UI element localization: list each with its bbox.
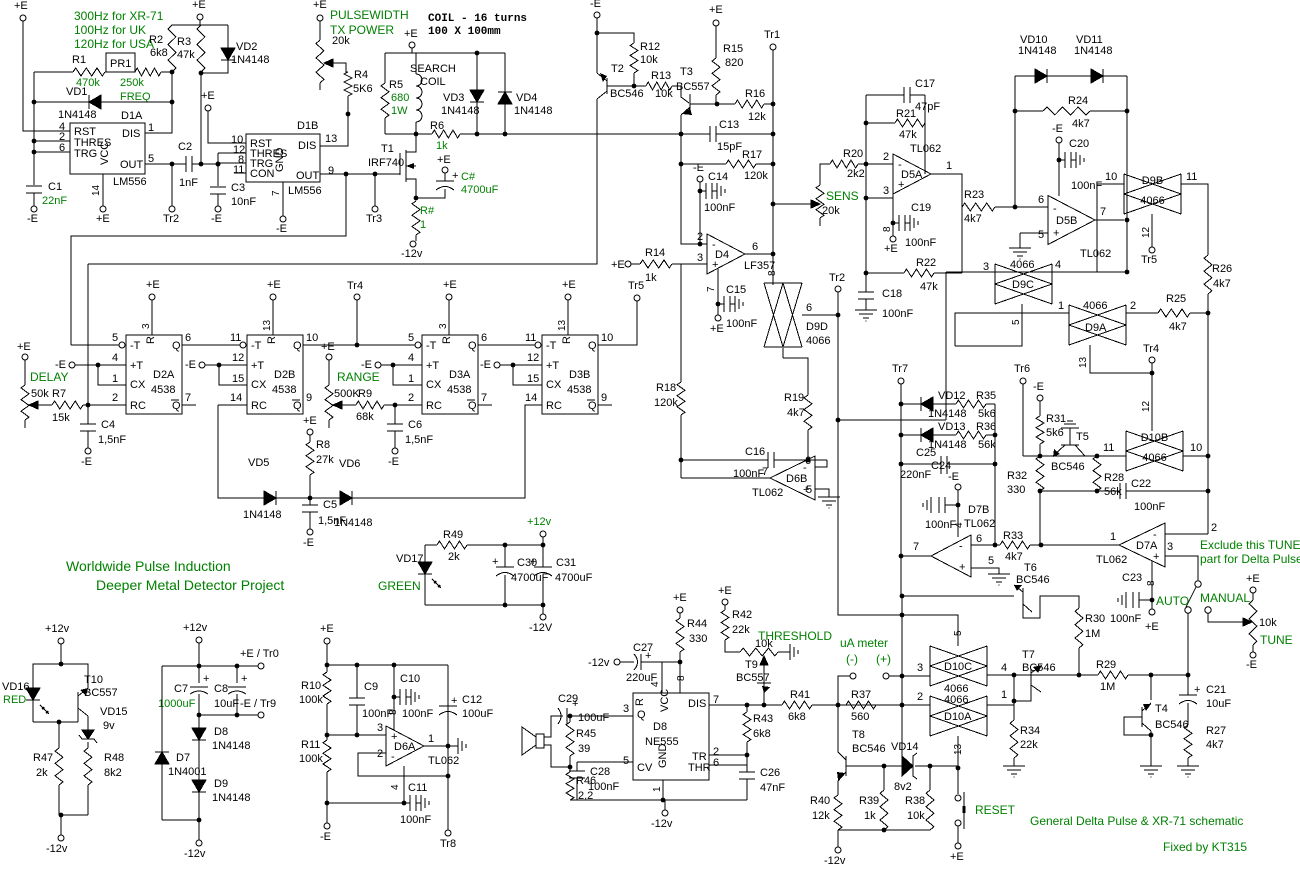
wire C22 row (1040, 490, 1120, 492)
svg-text:+T: +T (251, 360, 264, 372)
svg-text:120k: 120k (744, 170, 768, 182)
IC D1A LM556 box (70, 123, 145, 174)
svg-text:10: 10 (306, 332, 318, 344)
wire R27 gnd (1187, 758, 1189, 766)
wire y420 branch (838, 419, 946, 421)
terminal -12v T10 (58, 835, 64, 841)
capacitor C4 plates (80, 423, 96, 425)
svg-text:100nF: 100nF (882, 308, 913, 320)
svg-text:D1A: D1A (121, 110, 143, 122)
wire Tr6 down (1022, 384, 1024, 456)
svg-text:3: 3 (438, 323, 449, 329)
svg-text:+E: +E (950, 851, 964, 863)
wire VD3 bottom (476, 102, 478, 134)
junction out node (446, 744, 451, 749)
wire VD16 bottom (32, 700, 34, 722)
wire R18 bottom (680, 415, 682, 478)
ground D6B (818, 496, 840, 498)
junction C8 mid (235, 713, 240, 718)
diode VD17 symbol (418, 562, 432, 574)
svg-text:12k: 12k (812, 810, 830, 822)
svg-text:Tr3: Tr3 (366, 213, 382, 225)
svg-text:D2B: D2B (274, 369, 295, 381)
junction R47 tap (57, 720, 62, 725)
wire +E D2A (151, 300, 153, 335)
junction C10 (392, 695, 397, 700)
svg-text:1: 1 (420, 219, 426, 231)
svg-text:12k: 12k (748, 111, 766, 123)
wire C6 bottom (394, 431, 396, 448)
svg-text:-12v: -12v (824, 855, 846, 867)
wire C6 top (394, 405, 396, 424)
svg-text:1: 1 (652, 786, 663, 792)
wire R32 R33 (1039, 491, 1041, 545)
svg-text:COIL: COIL (420, 76, 446, 88)
wire Tr0 stub (237, 665, 258, 667)
svg-text:6k8: 6k8 (788, 711, 806, 723)
resistor R46 (566, 772, 574, 800)
svg-text:C24: C24 (931, 460, 951, 472)
wire C31 top lead (542, 545, 544, 567)
svg-text:330: 330 (1007, 484, 1025, 496)
svg-text:2k: 2k (448, 551, 460, 563)
svg-text:-: - (959, 541, 963, 553)
svg-text:11: 11 (233, 164, 244, 176)
svg-text:D1B: D1B (297, 120, 318, 132)
op-amp D6B TL062 (770, 456, 815, 500)
resistor R44 (676, 618, 684, 652)
wire R14 right (672, 263, 707, 265)
svg-text:7: 7 (706, 286, 717, 292)
resistor R41 (782, 701, 812, 709)
svg-text:-12v: -12v (184, 848, 206, 860)
svg-text:6: 6 (1038, 194, 1044, 206)
junction C24 (956, 503, 961, 508)
wire Tr2 bus down (838, 315, 958, 646)
wire C29 right (567, 715, 633, 717)
wire VD4 top (504, 53, 506, 92)
svg-text:1: 1 (1058, 300, 1064, 312)
svg-text:12: 12 (232, 352, 244, 364)
junction C9 pin3 (355, 733, 360, 738)
wire D10A in (838, 704, 930, 706)
wire R49 right (467, 544, 543, 546)
junction C22 R26line (1206, 489, 1211, 494)
svg-text:Q: Q (172, 400, 181, 412)
svg-text:BC557: BC557 (736, 672, 770, 684)
svg-text:5: 5 (408, 332, 414, 344)
svg-text:6: 6 (806, 302, 812, 314)
svg-text:R11: R11 (301, 739, 320, 751)
svg-text:Q: Q (588, 340, 597, 352)
wire C7 top lead (198, 666, 200, 683)
wire gnd rail 555 (577, 799, 747, 801)
resistor R30 (1075, 608, 1083, 648)
svg-text:+E: +E (267, 279, 281, 291)
svg-text:Tr7: Tr7 (892, 363, 908, 375)
wire CX loop D2A (98, 365, 126, 385)
svg-text:1: 1 (148, 122, 154, 134)
svg-text:R29: R29 (1096, 659, 1116, 671)
svg-text:2: 2 (697, 231, 703, 243)
svg-text:R22: R22 (916, 257, 936, 269)
svg-text:-T: -T (130, 340, 141, 352)
junction R24 L (1013, 109, 1018, 114)
svg-text:R1: R1 (72, 54, 86, 66)
wire VD1 left (34, 101, 89, 103)
svg-text:Deeper Metal Detector Project: Deeper Metal Detector Project (96, 577, 284, 593)
junction R31 T5 (1038, 454, 1043, 459)
svg-text:LM556: LM556 (113, 176, 147, 188)
junction VD1 node (170, 100, 175, 105)
svg-text:R5: R5 (389, 79, 403, 91)
svg-text:1,5nF: 1,5nF (98, 434, 126, 446)
svg-text:1N4148: 1N4148 (441, 105, 480, 117)
svg-text:R13: R13 (651, 70, 671, 82)
terminal -E D6A (324, 823, 330, 829)
svg-text:1: 1 (1110, 531, 1116, 543)
wire +12v down2 (198, 643, 200, 666)
resistor R36 (956, 431, 986, 439)
svg-text:TL062: TL062 (1080, 248, 1111, 260)
junction 866 123 (864, 121, 869, 126)
resistor R# (412, 201, 420, 235)
wire D7B out (901, 555, 931, 557)
svg-text:22nF: 22nF (42, 195, 67, 207)
svg-text:+T: +T (546, 360, 559, 372)
wire bus B left drop (87, 264, 89, 404)
svg-text:C16: C16 (745, 446, 765, 458)
svg-text:10k: 10k (640, 54, 658, 66)
terminal +E D3A (446, 294, 452, 300)
wire D9D bottom (782, 348, 784, 358)
terminal -E pin7 (280, 216, 286, 222)
wire T1 drain (406, 134, 416, 152)
svg-text:6: 6 (976, 533, 982, 545)
svg-text:C4: C4 (101, 419, 115, 431)
capacitor C21 plates (1179, 694, 1197, 696)
svg-text:-E: -E (81, 456, 92, 468)
terminal Tr7 (898, 378, 904, 384)
svg-text:4: 4 (112, 352, 118, 364)
wire L1 T6 (901, 595, 1014, 597)
junction +T CX D3A (391, 363, 396, 368)
svg-text:4538: 4538 (447, 384, 471, 396)
wire T8 emitter (837, 781, 839, 795)
transistor T3 BC557 (689, 94, 691, 113)
svg-text:680: 680 (391, 92, 409, 104)
junction C8 top (235, 664, 240, 669)
svg-text:+: + (959, 562, 965, 574)
svg-text:47nF: 47nF (760, 782, 785, 794)
D2A -T bubble (119, 342, 125, 348)
terminal +12v filter (540, 531, 546, 537)
wire Q stub D3B9 (598, 404, 612, 406)
wire T4 loop (1124, 717, 1151, 735)
wire R17 right (756, 163, 773, 165)
svg-text:+E: +E (320, 623, 334, 635)
svg-text:R: R (561, 336, 573, 344)
wire VD13 left (901, 434, 921, 436)
diode VD1 (89, 95, 101, 109)
svg-text:D6B: D6B (786, 473, 807, 485)
wire R11 bottom (326, 772, 328, 823)
svg-text:D9D: D9D (806, 321, 828, 333)
svg-text:VD5: VD5 (248, 457, 269, 469)
wire R10 leads (326, 665, 328, 672)
wire SENS wiper (773, 203, 811, 205)
svg-text:SENS: SENS (826, 189, 859, 203)
junction C20 (1057, 158, 1062, 163)
resistor R42 (721, 610, 729, 640)
svg-text:D8: D8 (653, 721, 667, 733)
potentiometer TUNE 10k (1249, 600, 1257, 645)
pot DELAY arrow (29, 401, 38, 409)
junction C4 RC (86, 403, 91, 408)
svg-text:Tr4: Tr4 (1143, 343, 1159, 355)
svg-text:560: 560 (851, 711, 869, 723)
wire T10 emitter (61, 664, 88, 688)
junction x902 L1 (900, 594, 905, 599)
junction C16 left (679, 458, 684, 463)
svg-text:8: 8 (388, 709, 399, 715)
svg-text:12: 12 (1141, 400, 1152, 412)
wire R47 bottom (58, 785, 60, 815)
svg-text:2: 2 (112, 392, 118, 404)
svg-text:VD2: VD2 (236, 41, 257, 53)
resistor R49 (437, 541, 467, 549)
svg-text:-12v: -12v (401, 248, 423, 260)
svg-text:Q: Q (468, 400, 477, 412)
svg-text:D3A: D3A (449, 369, 471, 381)
svg-text:+: + (1153, 551, 1159, 563)
svg-text:C11: C11 (408, 782, 427, 794)
capacitor C# (436, 180, 454, 182)
junction D10A ctl row (956, 766, 961, 771)
svg-text:100k: 100k (299, 694, 323, 706)
terminal -E C24 (955, 484, 961, 490)
svg-text:D5B: D5B (1056, 215, 1077, 227)
svg-text:4: 4 (408, 352, 414, 364)
svg-text:C29: C29 (558, 693, 578, 705)
svg-text:R16: R16 (745, 88, 765, 100)
switch AUTO/MANUAL contact A (1195, 581, 1201, 587)
svg-text:4538: 4538 (567, 384, 591, 396)
svg-text:C12: C12 (462, 694, 482, 706)
junction C14 pin2 (698, 242, 703, 247)
svg-text:+: + (492, 556, 498, 568)
svg-text:1N4148: 1N4148 (514, 105, 553, 117)
svg-text:R45: R45 (576, 728, 596, 740)
svg-text:Tr1: Tr1 (764, 29, 780, 41)
resistor R32 (1036, 456, 1044, 491)
terminal +E D6A (324, 638, 330, 644)
wire R49 left (425, 544, 437, 546)
wire -12v lead (60, 815, 62, 835)
wire R30 bottom (1078, 648, 1080, 675)
svg-text:RC: RC (251, 400, 267, 412)
junction R39 bottom (882, 828, 887, 833)
svg-text:-T: -T (426, 340, 437, 352)
svg-text:Q: Q (468, 340, 477, 352)
svg-text:10uF: 10uF (214, 698, 239, 710)
svg-text:10: 10 (601, 332, 613, 344)
wire R1 to PR1 (105, 71, 135, 73)
capacitor C16 plates (767, 452, 769, 468)
svg-text:R23: R23 (964, 189, 984, 201)
svg-text:C18: C18 (882, 288, 902, 300)
svg-text:4k7: 4k7 (1213, 278, 1231, 290)
wire R1 left (34, 71, 73, 73)
wire pin4 (661, 662, 663, 693)
svg-text:D6A: D6A (394, 741, 416, 753)
svg-text:3: 3 (623, 703, 629, 715)
svg-text:5: 5 (1011, 319, 1022, 325)
svg-text:BC557: BC557 (676, 81, 710, 93)
wire R37 right (876, 704, 902, 706)
terminal -E C4 (85, 448, 91, 454)
svg-text:C27: C27 (633, 642, 653, 654)
wire R36 right (986, 434, 995, 436)
junction Tr4 tap (355, 343, 360, 348)
diode D7 symbol (155, 752, 169, 764)
svg-text:27k: 27k (316, 454, 334, 466)
wire C2 right (192, 163, 218, 165)
svg-text:+E: +E (710, 323, 724, 335)
svg-text:D10B: D10B (1141, 432, 1169, 444)
wire D4 out down (772, 254, 774, 285)
wire pin12-8 tie (217, 153, 219, 186)
wire R29 right (1128, 674, 1188, 676)
resistor R15 (712, 58, 720, 95)
svg-text:BC557: BC557 (84, 687, 118, 699)
svg-text:2: 2 (883, 151, 889, 163)
capacitor C20 (1059, 159, 1065, 161)
svg-text:1: 1 (946, 160, 952, 172)
svg-text:4k7: 4k7 (1206, 739, 1224, 751)
terminal +E pin14 (100, 206, 106, 212)
wire D4 power (717, 269, 719, 315)
svg-text:D7A: D7A (1136, 540, 1158, 552)
svg-text:+E: +E (146, 279, 160, 291)
potentiometer SENS 20k (816, 185, 824, 218)
terminal +E RANGE (326, 354, 332, 360)
junction T10 top (59, 662, 64, 667)
terminal -E under C1 (31, 206, 37, 212)
wire C9 top (356, 665, 358, 698)
junction R28 C22 (1095, 489, 1100, 494)
svg-text:68k: 68k (356, 411, 374, 423)
wire C17 line (866, 94, 904, 96)
svg-text:Tr4: Tr4 (347, 280, 363, 292)
svg-text:DIS: DIS (122, 128, 140, 140)
terminal Tr1 (770, 44, 776, 50)
svg-text:C23: C23 (1122, 572, 1142, 584)
svg-text:RC: RC (546, 400, 562, 412)
svg-text:2: 2 (1211, 522, 1217, 534)
IC D2B 4538 box (247, 335, 303, 414)
svg-text:TRG: TRG (74, 148, 97, 160)
svg-text:3: 3 (1167, 541, 1173, 553)
svg-text:22k: 22k (732, 624, 750, 636)
junction VD12 (899, 402, 904, 407)
svg-text:BC546: BC546 (610, 88, 644, 100)
svg-text:RED: RED (3, 694, 26, 706)
svg-text:CX: CX (130, 379, 146, 391)
terminal +E reset (955, 843, 961, 849)
svg-text:VD1: VD1 (66, 86, 87, 98)
wire R15 bottom (715, 95, 717, 104)
wire +E coil drop (411, 48, 413, 53)
svg-text:Fixed by KT315: Fixed by KT315 (1163, 840, 1247, 854)
terminal -E C20 (1056, 137, 1062, 143)
IC D8 NE555 box (633, 693, 709, 780)
svg-text:R43: R43 (753, 713, 773, 725)
wire C24 drop (957, 490, 959, 505)
svg-text:330: 330 (689, 633, 707, 645)
svg-text:1N4148: 1N4148 (212, 792, 251, 804)
wire +E to RST10 (208, 111, 246, 143)
ground R27 (1177, 765, 1199, 767)
svg-text:1k: 1k (864, 810, 876, 822)
resistor R48 (84, 748, 92, 785)
svg-text:VD15: VD15 (100, 706, 128, 718)
wire VD5 right (276, 497, 310, 499)
svg-text:R15: R15 (723, 43, 743, 55)
wire R8 bottom (309, 475, 311, 498)
wire +E drop (199, 20, 201, 25)
svg-text:15k: 15k (52, 412, 70, 424)
svg-text:R25: R25 (1166, 293, 1186, 305)
svg-text:1: 1 (428, 733, 434, 745)
wire +T D2B (205, 364, 247, 366)
svg-text:R4: R4 (354, 69, 368, 81)
svg-text:+E: +E (673, 592, 687, 604)
wire RANGE top (328, 360, 330, 385)
junction R3 VD2 (199, 71, 204, 76)
terminal +E coil (409, 42, 415, 48)
svg-text:9: 9 (601, 392, 607, 404)
junction R25 R26 (1206, 311, 1211, 316)
ground D7B (988, 573, 1010, 575)
wire R44 top (679, 613, 681, 618)
svg-text:+E: +E (313, 0, 327, 11)
svg-text:Q: Q (172, 340, 181, 352)
wire DELAY top (24, 360, 26, 385)
svg-text:+E / Tr0: +E / Tr0 (240, 648, 279, 660)
wire SENS top (820, 164, 830, 185)
wire D10A out (987, 704, 1014, 706)
wire VD12 R35 (933, 403, 956, 405)
svg-text:6: 6 (481, 332, 487, 344)
svg-text:Tr2: Tr2 (829, 272, 845, 284)
capacitor C29 (558, 708, 561, 724)
wire Tr2 drop (837, 292, 839, 315)
terminal -E/Tr9 (258, 712, 264, 718)
wire Tr1 SENS (772, 104, 774, 254)
wire R46 top (569, 767, 571, 772)
svg-text:120k: 120k (654, 397, 678, 409)
svg-text:6: 6 (713, 757, 719, 769)
wire R25 right (1190, 312, 1208, 314)
svg-text:+E: +E (303, 415, 317, 427)
svg-text:1N4148: 1N4148 (231, 54, 270, 66)
wire D9C ctl (955, 304, 1022, 346)
wire T7 loop (1014, 675, 1031, 701)
wire Q10 D2B (303, 344, 357, 346)
svg-text:22k: 22k (1020, 739, 1038, 751)
wire +T D3B (500, 364, 542, 366)
